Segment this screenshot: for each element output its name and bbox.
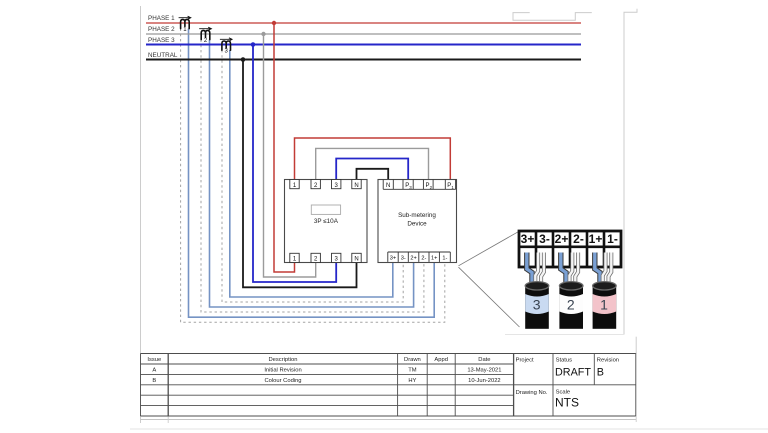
- wire breaker 1 to meter P1 (red arc): [295, 138, 451, 180]
- svg-text:3-: 3-: [401, 256, 406, 262]
- CT 1 (current transformer on phase 1): [179, 16, 191, 33]
- svg-text:1: 1: [600, 296, 608, 312]
- breaker rating plate: [311, 205, 340, 214]
- svg-text:NEUTRAL: NEUTRAL: [148, 52, 178, 59]
- wire phase3 feed to breaker terminal 3 (blue): [253, 45, 336, 283]
- svg-text:DRAFT: DRAFT: [555, 366, 591, 378]
- node phase1 tap: [272, 21, 276, 25]
- breaker top terminal 3: [332, 180, 341, 189]
- svg-text:Date: Date: [478, 357, 490, 363]
- label PHASE 2: [148, 26, 175, 33]
- svg-text:Sub-metering: Sub-metering: [398, 212, 436, 219]
- svg-text:Appd: Appd: [434, 357, 448, 363]
- title block drawing no cell: [516, 390, 548, 396]
- svg-text:PHASE 1: PHASE 1: [148, 15, 175, 22]
- wire phase1 feed to breaker terminal 1 (red): [274, 23, 295, 272]
- detail label 1+: [589, 232, 603, 246]
- svg-text:Project: Project: [516, 358, 534, 364]
- svg-text:Colour Coding: Colour Coding: [264, 378, 301, 384]
- wire breaker 3 to meter P3 (blue arc): [336, 159, 408, 180]
- meter label Sub-metering Device: [398, 212, 436, 228]
- wire neutral feed to breaker terminal N (black): [243, 60, 357, 288]
- svg-text:PHASE 2: PHASE 2: [148, 26, 175, 33]
- meter terminal P1: [447, 183, 454, 190]
- breaker top terminal 1: [290, 180, 299, 189]
- meter bottom terminal strip: [388, 252, 451, 262]
- svg-text:N: N: [354, 257, 358, 263]
- wire neutral bus (black): [146, 59, 581, 61]
- svg-text:1-: 1-: [442, 256, 447, 262]
- svg-text:3+: 3+: [521, 232, 535, 246]
- breaker bottom terminal 1: [290, 253, 299, 262]
- title block revision row B: [152, 378, 500, 384]
- svg-text:Issue: Issue: [147, 357, 161, 363]
- svg-text:N: N: [386, 183, 390, 189]
- svg-text:Status: Status: [556, 358, 573, 364]
- label NEUTRAL: [148, 52, 178, 59]
- wire phase2 feed to breaker terminal 2 (grey): [264, 34, 316, 277]
- svg-text:13-May-2021: 13-May-2021: [467, 368, 501, 374]
- page frame bottom lines: [130, 416, 768, 429]
- meter terminal 2-: [421, 256, 426, 262]
- breaker top terminal N: [352, 180, 361, 189]
- title block revision row A: [152, 368, 501, 374]
- detail wire white pair from 1-: [603, 253, 612, 286]
- detail wire white pair from 2-: [570, 253, 579, 286]
- detail label 3-: [539, 232, 550, 246]
- cable 3 (blue band): [525, 282, 549, 329]
- meter terminal 1-: [442, 256, 447, 262]
- svg-text:3P ≤10A: 3P ≤10A: [314, 218, 339, 225]
- svg-text:B: B: [152, 378, 156, 384]
- meter terminal P2: [426, 183, 433, 190]
- wire CT2 secondary - to meter 2- (dashed): [201, 40, 424, 312]
- detail label 1-: [607, 232, 618, 246]
- svg-text:Scale: Scale: [556, 390, 571, 396]
- wire CT2 secondary + to meter 2+ (light blue): [210, 40, 414, 307]
- meter terminal P3: [405, 183, 412, 190]
- svg-text:B: B: [597, 366, 604, 378]
- breaker top terminal 2: [311, 180, 320, 189]
- meter terminal 2+: [410, 256, 416, 262]
- meter terminal 3+: [390, 256, 396, 262]
- breaker bottom terminal 3: [332, 253, 341, 262]
- wire CT3 secondary - to meter 3- (dashed): [222, 50, 403, 302]
- svg-text:NTS: NTS: [555, 396, 579, 410]
- title block scale cell: [555, 390, 579, 410]
- svg-text:TM: TM: [408, 368, 417, 374]
- page frame top notch: [513, 13, 592, 21]
- svg-text:2-: 2-: [421, 256, 426, 262]
- svg-text:HY: HY: [408, 378, 416, 384]
- svg-text:Drawing No.: Drawing No.: [516, 390, 548, 396]
- svg-text:3+: 3+: [390, 256, 396, 262]
- svg-text:2-: 2-: [573, 232, 584, 246]
- label PHASE 1: [148, 15, 175, 22]
- wire breaker 2 to meter P2 (grey arc): [316, 148, 429, 179]
- callout line upper: [459, 231, 520, 265]
- title block header texts: [147, 357, 490, 363]
- svg-text:3: 3: [533, 296, 541, 312]
- detail label 2-: [573, 232, 584, 246]
- label PHASE 3: [148, 37, 175, 44]
- page frame left edge: [140, 6, 142, 423]
- svg-text:1+: 1+: [431, 256, 437, 262]
- detail label 3+: [521, 232, 535, 246]
- breaker CB1 box: [285, 180, 368, 263]
- breaker label 3P ≤10A: [314, 218, 339, 225]
- node phase3 tap: [251, 42, 256, 47]
- meter terminal 3-: [401, 256, 406, 262]
- CT 2 (current transformer on phase 2): [199, 27, 211, 44]
- detail wire blue from 2+: [561, 253, 566, 285]
- CT 3 (current transformer on phase 3): [220, 38, 232, 55]
- node neutral tap: [241, 57, 246, 62]
- detail label 2+: [555, 232, 569, 246]
- meter top terminal strip: [383, 180, 455, 190]
- title block table: [141, 354, 636, 417]
- wire CT1 secondary - to meter 1- (dashed): [181, 29, 445, 323]
- detail wire blue from 3+: [527, 253, 532, 285]
- svg-text:Device: Device: [407, 220, 427, 227]
- wire breaker N to meter N (black arc): [357, 169, 389, 180]
- svg-text:2+: 2+: [555, 232, 569, 246]
- svg-text:Drawn: Drawn: [404, 357, 421, 363]
- sub-metering device U1 box: [378, 180, 457, 263]
- wire phase 2 bus (grey): [146, 33, 581, 35]
- svg-text:1+: 1+: [589, 232, 603, 246]
- title block revision cell: [597, 358, 619, 379]
- title block status cell: [555, 358, 591, 379]
- svg-text:A: A: [152, 368, 156, 374]
- svg-text:1-: 1-: [607, 232, 618, 246]
- wire phase 1 bus (red): [146, 22, 581, 24]
- node phase2 tap: [261, 32, 265, 36]
- cable 1 (pink band): [593, 282, 617, 329]
- wire CT1 secondary + to meter 1+ (light blue): [189, 29, 435, 318]
- detail wire blue from 1+: [595, 253, 600, 285]
- cable 2 (white band): [559, 282, 583, 329]
- breaker bottom terminal N: [352, 253, 361, 262]
- meter terminal N: [386, 183, 390, 189]
- svg-text:10-Jun-2022: 10-Jun-2022: [468, 378, 501, 384]
- detail terminal block outline: [519, 231, 621, 267]
- breaker bottom terminal 2: [311, 253, 320, 262]
- svg-text:Description: Description: [269, 357, 298, 363]
- wire phase 3 bus (blue): [146, 44, 581, 46]
- svg-text:Initial Revision: Initial Revision: [264, 368, 301, 374]
- title block project cell: [516, 358, 534, 364]
- svg-text:PHASE 3: PHASE 3: [148, 37, 175, 44]
- svg-text:Revision: Revision: [597, 358, 619, 364]
- page frame right edge: [505, 9, 637, 354]
- callout line lower: [459, 267, 520, 327]
- svg-text:2+: 2+: [410, 256, 416, 262]
- svg-text:2: 2: [567, 296, 575, 312]
- wire CT3 secondary + to meter 3+ (light blue): [230, 50, 393, 297]
- svg-text:3-: 3-: [539, 232, 550, 246]
- meter terminal 1+: [431, 256, 437, 262]
- detail wire white pair from 3-: [535, 253, 544, 286]
- svg-text:N: N: [354, 183, 358, 189]
